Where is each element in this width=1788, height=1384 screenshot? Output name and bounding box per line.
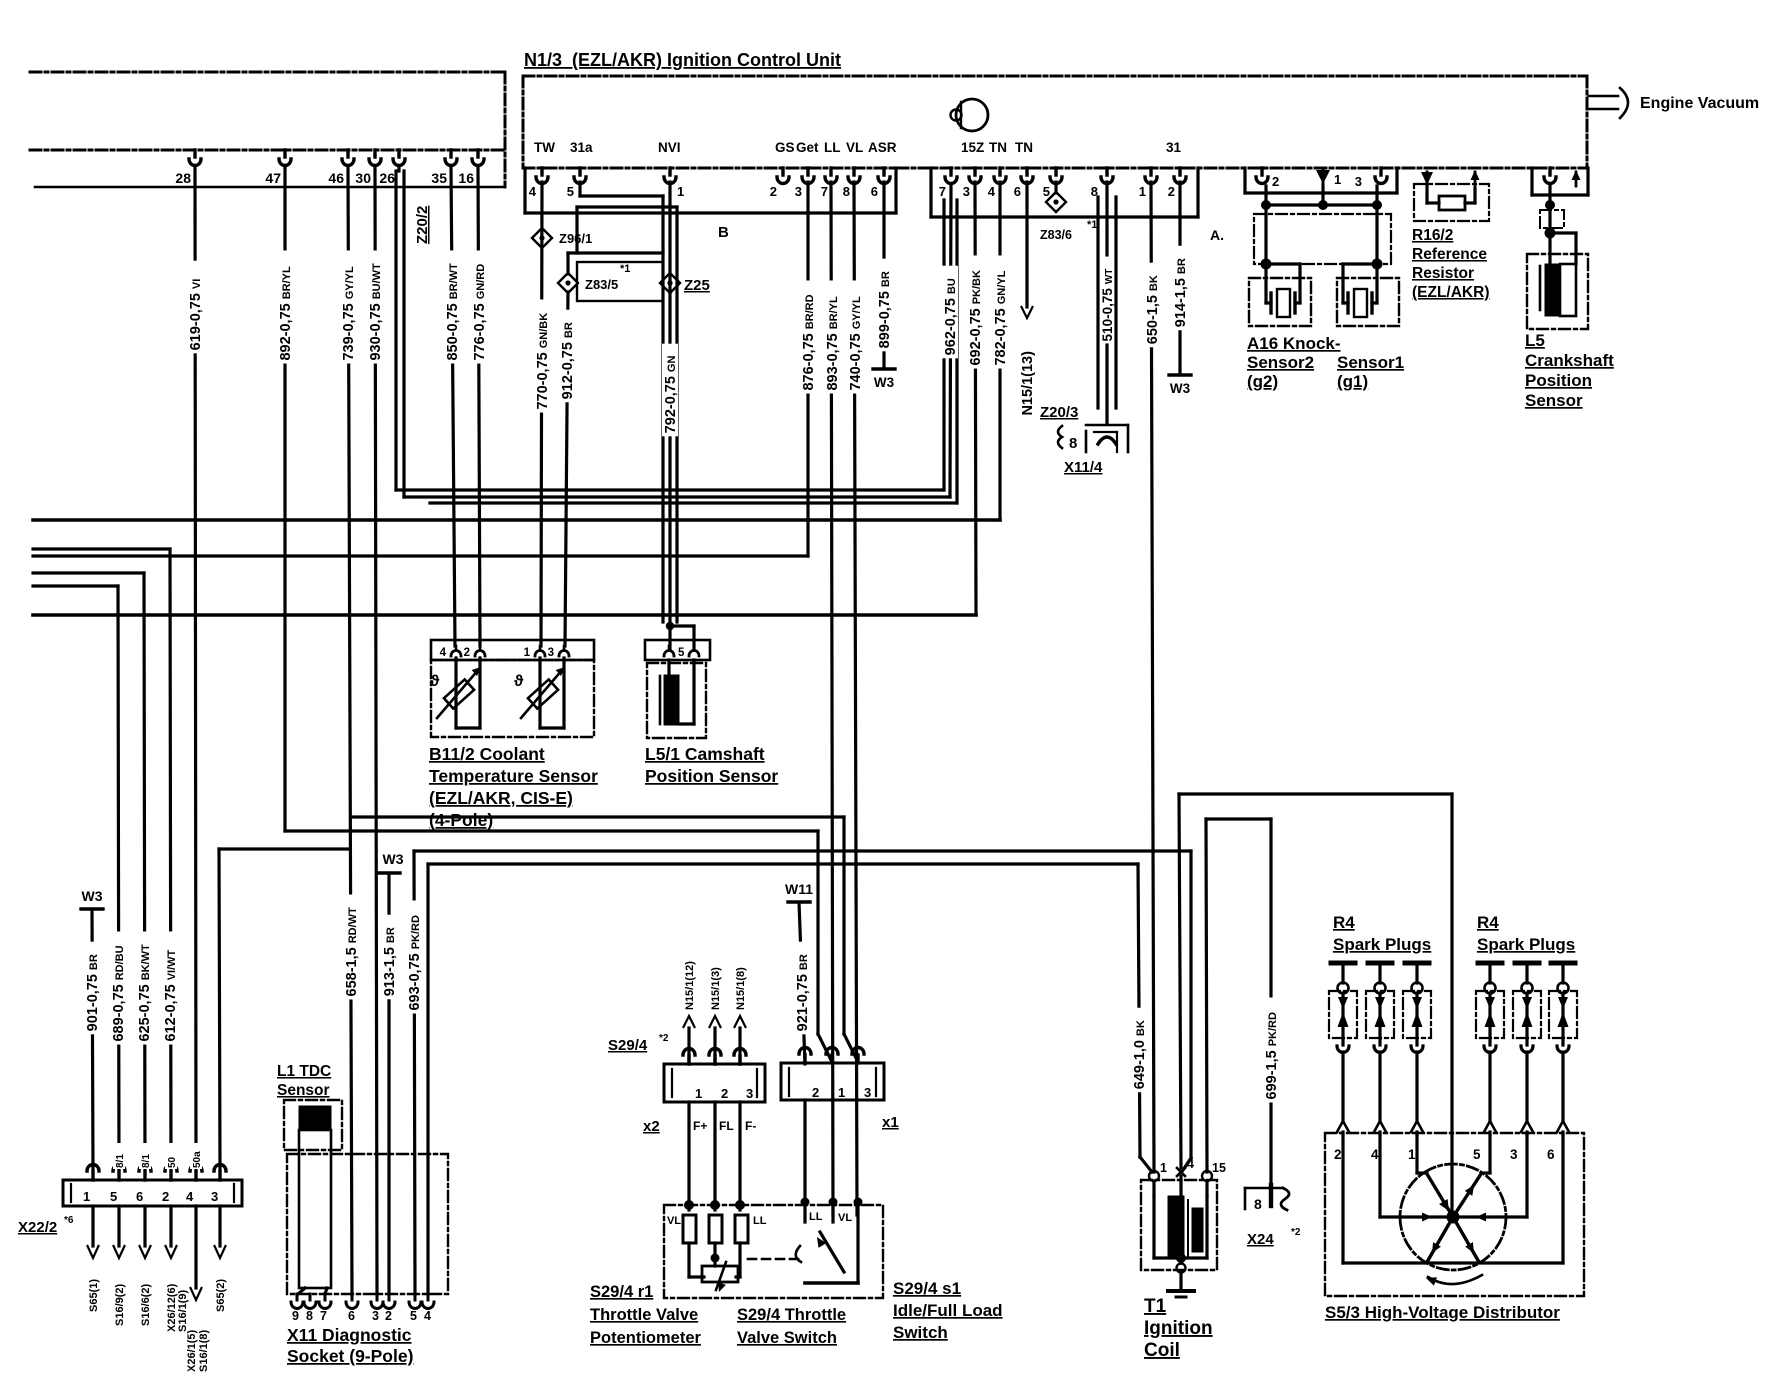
svg-text:7: 7 <box>939 184 946 199</box>
svg-text:TN: TN <box>1015 140 1033 155</box>
svg-text:Engine Vacuum: Engine Vacuum <box>1640 95 1759 112</box>
wire (X11 pin 4 to T1 terminal 1 / 649) <box>428 862 1138 865</box>
svg-text:7: 7 <box>320 1309 327 1323</box>
svg-text:3: 3 <box>372 1309 379 1323</box>
wire 913-1,5 BR (W3 to X11 pin 2) <box>387 873 390 1294</box>
connector X11 Diagnostic Socket (9-Pole) <box>287 1154 448 1294</box>
svg-text:A.: A. <box>1210 227 1224 243</box>
potentiometer S29/4 r1 <box>684 1200 694 1210</box>
svg-text:28: 28 <box>175 170 191 186</box>
svg-text:3: 3 <box>746 1086 753 1101</box>
svg-text:Potentiometer: Potentiometer <box>590 1329 702 1347</box>
svg-text:X11 Diagnostic: X11 Diagnostic <box>287 1325 412 1345</box>
svg-text:*1: *1 <box>620 263 630 275</box>
svg-text:650-1,5BK: 650-1,5BK <box>1145 275 1161 344</box>
svg-text:ASR: ASR <box>868 140 897 155</box>
svg-text:2: 2 <box>385 1309 392 1323</box>
svg-text:2: 2 <box>1272 174 1279 189</box>
box: control unit sub-connector A <box>929 168 932 217</box>
spark plug at x=1343 <box>1331 961 1355 966</box>
box: control unit sub-connector B <box>523 168 526 213</box>
svg-text:619-0,75VI: 619-0,75VI <box>188 279 204 351</box>
svg-text:S65(2): S65(2) <box>215 1279 227 1312</box>
svg-text:F+: F+ <box>693 1119 707 1133</box>
svg-text:6: 6 <box>1014 184 1021 199</box>
wire 876-0,75 BR/RD (Get pin 3 to left bus) <box>806 182 809 556</box>
svg-text:2: 2 <box>721 1086 728 1101</box>
svg-text:1: 1 <box>83 1189 90 1204</box>
node terminal 26 <box>393 150 405 166</box>
svg-text:Resistor: Resistor <box>1412 265 1474 282</box>
spark plug at x=1380 <box>1368 961 1392 966</box>
svg-text:5: 5 <box>110 1189 117 1204</box>
svg-text:Crankshaft: Crankshaft <box>1525 351 1614 370</box>
svg-text:(4-Pole): (4-Pole) <box>429 810 493 830</box>
svg-text:Z83/6: Z83/6 <box>1040 228 1072 242</box>
wire: bus to X22/2 pin 5 (689) <box>33 584 118 587</box>
svg-text:Coil: Coil <box>1144 1340 1180 1361</box>
svg-text:R4: R4 <box>1477 913 1499 932</box>
svg-text:X26/1(5): X26/1(5) <box>186 1329 198 1372</box>
svg-text:6: 6 <box>1547 1147 1555 1162</box>
wire 921-0,75 BR (W11 to x1 pin 2) <box>799 902 805 1064</box>
svg-text:50: 50 <box>167 1156 178 1168</box>
svg-text:*2: *2 <box>1291 1227 1301 1238</box>
wire N15/1(13) reference (pin 6) <box>1025 182 1028 307</box>
transducer A16 Knock-Sensor1 (g1) <box>1337 278 1399 326</box>
svg-text:FL: FL <box>719 1119 734 1133</box>
sensor L5/1 Camshaft Position Sensor <box>645 640 710 660</box>
svg-text:3: 3 <box>963 184 970 199</box>
svg-text:(g1): (g1) <box>1337 372 1368 391</box>
svg-text:50a: 50a <box>192 1151 203 1168</box>
svg-text:6: 6 <box>136 1189 143 1204</box>
svg-text:N15/1(3): N15/1(3) <box>710 967 722 1010</box>
wire: shield bus lines (Z20/2 to 962 shield) <box>396 488 944 491</box>
svg-text:Z20/3: Z20/3 <box>1040 404 1078 421</box>
node Z96/1 <box>532 228 552 248</box>
wire: knock sensor network <box>1264 186 1267 264</box>
svg-text:912-0,75BR: 912-0,75BR <box>560 322 576 399</box>
svg-text:1: 1 <box>838 1085 845 1100</box>
svg-text:Z20/2: Z20/2 <box>414 206 431 244</box>
svg-text:Sensor2: Sensor2 <box>1247 353 1314 372</box>
connector X22/2 <box>63 1180 242 1206</box>
svg-text:*2: *2 <box>659 1033 669 1044</box>
svg-text:L5/1 Camshaft: L5/1 Camshaft <box>645 744 765 764</box>
svg-text:W3: W3 <box>383 851 404 867</box>
svg-text:Idle/Full Load: Idle/Full Load <box>893 1301 1003 1320</box>
svg-text:7: 7 <box>821 184 828 199</box>
svg-text:4: 4 <box>1371 1147 1379 1162</box>
svg-text:4: 4 <box>186 1189 194 1204</box>
wire: top-left dash-dot harness outline <box>30 71 505 74</box>
svg-text:ϑ: ϑ <box>514 673 524 690</box>
wire 740-0,75 GY/YL (VL pin 8 through x1 to throttle switch) <box>854 182 857 1215</box>
svg-text:770-0,75GN/BK: 770-0,75GN/BK <box>535 313 551 410</box>
svg-text:Z83/5: Z83/5 <box>585 277 618 292</box>
rotation arrow <box>1428 1275 1482 1284</box>
wire 901-0,75 BR (W3 to X22/2 pin 1) <box>92 909 93 1170</box>
svg-text:N1/3 (EZL/AKR) Ignition Contr: N1/3 (EZL/AKR) Ignition Control Unit <box>524 50 841 70</box>
rotor arms <box>1427 1174 1453 1217</box>
svg-text:S5/3 High-Voltage Distributor: S5/3 High-Voltage Distributor <box>1325 1303 1560 1322</box>
svg-text:Reference: Reference <box>1412 246 1487 263</box>
svg-text:8: 8 <box>306 1309 313 1323</box>
wire 692-0,75 PK/BK (pin 3 to left bus) <box>975 182 976 615</box>
svg-text:1: 1 <box>1334 172 1341 187</box>
svg-text:30: 30 <box>355 170 371 186</box>
svg-text:3: 3 <box>864 1085 871 1100</box>
svg-text:892-0,75BR/YL: 892-0,75BR/YL <box>278 266 294 361</box>
svg-text:6: 6 <box>348 1309 355 1323</box>
svg-text:3: 3 <box>211 1189 218 1204</box>
svg-text:VL: VL <box>667 1215 681 1227</box>
wire 625-0,75 BK/WT <box>144 573 145 1170</box>
svg-text:2: 2 <box>162 1189 169 1204</box>
svg-text:B11/2 Coolant: B11/2 Coolant <box>429 744 545 764</box>
svg-text:740-0,75GY/YL: 740-0,75GY/YL <box>848 296 864 391</box>
svg-text:TN: TN <box>989 140 1007 155</box>
svg-text:LL: LL <box>809 1211 823 1223</box>
svg-text:4: 4 <box>988 184 996 199</box>
svg-text:N15/1(13): N15/1(13) <box>1020 351 1036 416</box>
svg-text:31: 31 <box>1166 140 1182 155</box>
svg-text:47: 47 <box>265 170 281 186</box>
rotor circle <box>1400 1164 1506 1270</box>
node terminal 47 <box>279 150 291 166</box>
svg-text:4: 4 <box>529 184 537 199</box>
svg-text:1: 1 <box>677 184 684 199</box>
svg-text:Sensor: Sensor <box>277 1082 330 1099</box>
svg-text:4: 4 <box>1187 1157 1194 1171</box>
svg-text:699-1,5PK/RD: 699-1,5PK/RD <box>1264 1012 1280 1099</box>
wire 693-0,75 PK/RD (X11 pin 5 to T1 area) <box>414 849 1191 852</box>
wire 893-0,75 BR/YL (LL pin 7 through x1 to throttle switch) <box>831 182 833 1215</box>
wire 739-0,75 GY/YL / 658-1,5 RD/WT (terminal 46 to X11 pin 6) <box>348 168 352 1294</box>
wire 510-0,75 WT shielded (pin 8 to connector X11/4) <box>1105 182 1108 424</box>
svg-text:L5: L5 <box>1525 331 1545 350</box>
svg-text:1: 1 <box>1160 1161 1167 1175</box>
svg-text:L1 TDC: L1 TDC <box>277 1063 331 1080</box>
wire 892-0,75 BR/YL (terminal 47 to x1 pin 1) <box>283 168 286 831</box>
svg-text:2: 2 <box>1334 1147 1342 1162</box>
node Z25 <box>660 273 680 293</box>
wire 619-0,75 VI (terminal 28 to X22/2 pin 4) <box>195 168 196 1170</box>
svg-text:W3: W3 <box>82 888 103 904</box>
wire N15/1 reference arrows above S29/4 <box>687 1028 690 1064</box>
wire T1 terminal 15 to X24 (699-1,5 PK/RD) <box>1206 819 1207 1172</box>
svg-text:Spark Plugs: Spark Plugs <box>1333 935 1431 954</box>
svg-text:2: 2 <box>770 184 777 199</box>
wire from X22/2 pin 3 up to junction <box>219 849 220 1170</box>
wire 770-0,75 GN/BK (TW pin 4 to B11/2 pin 1) <box>541 182 542 646</box>
svg-text:2: 2 <box>1168 184 1175 199</box>
wire 914-1,5 BR (pin 2 to ground W3) <box>1178 182 1181 374</box>
svg-text:1: 1 <box>1139 184 1146 199</box>
svg-text:26: 26 <box>379 170 395 186</box>
thermistor element (pins 4-2) <box>454 658 457 728</box>
svg-text:899-0,75BR: 899-0,75BR <box>877 271 893 348</box>
box S29/4 throttle potentiometer / switch <box>664 1205 883 1298</box>
svg-text:2: 2 <box>812 1085 819 1100</box>
svg-text:N15/1(12): N15/1(12) <box>684 961 696 1010</box>
svg-text:B: B <box>718 224 729 241</box>
wire 782-0,75 GN/YL (pin 4 to left bus) <box>998 182 1001 520</box>
wire: bus to X22/2 pin 6 (625) <box>33 571 144 574</box>
svg-text:901-0,75BR: 901-0,75BR <box>85 954 101 1031</box>
svg-text:5: 5 <box>678 647 685 659</box>
svg-text:F-: F- <box>745 1119 756 1133</box>
node terminal 35 <box>445 150 457 166</box>
svg-text:8: 8 <box>1069 435 1077 452</box>
svg-text:Throttle Valve: Throttle Valve <box>590 1306 698 1324</box>
svg-text:S16/1(8): S16/1(8) <box>198 1329 210 1372</box>
svg-text:4: 4 <box>424 1309 431 1323</box>
svg-text:Sensor: Sensor <box>1525 391 1583 410</box>
svg-text:S65(1): S65(1) <box>88 1279 100 1312</box>
ground W3 (914) <box>1169 373 1191 376</box>
svg-text:S29/4 Throttle: S29/4 Throttle <box>737 1306 846 1324</box>
svg-text:GS: GS <box>775 140 795 155</box>
svg-text:5: 5 <box>410 1309 417 1323</box>
spark plug at x=1563 <box>1551 961 1575 966</box>
svg-text:*1: *1 <box>1087 219 1097 231</box>
node terminal 30 <box>369 150 381 166</box>
svg-text:x1: x1 <box>882 1114 899 1131</box>
wires below X22/2 to reference points <box>91 1206 94 1246</box>
svg-text:3: 3 <box>795 184 802 199</box>
svg-text:1: 1 <box>524 647 531 659</box>
svg-text:921-0,75BR: 921-0,75BR <box>795 954 811 1031</box>
svg-text:15Z: 15Z <box>961 140 984 155</box>
wire 612-0,75 VI/WT <box>170 549 171 1170</box>
node Z83/6 <box>1054 182 1057 193</box>
svg-text:Valve Switch: Valve Switch <box>737 1329 837 1347</box>
svg-text:893-0,75BR/YL: 893-0,75BR/YL <box>825 296 841 391</box>
svg-text:5: 5 <box>1473 1147 1481 1162</box>
node terminal 28 <box>189 150 201 166</box>
svg-text:Temperature Sensor: Temperature Sensor <box>429 766 598 786</box>
svg-text:TW: TW <box>534 140 555 155</box>
svg-text:NVI: NVI <box>658 140 681 155</box>
svg-text:(g2): (g2) <box>1247 372 1278 391</box>
wire 649-1,0 BK <box>1138 864 1140 1157</box>
svg-text:31a: 31a <box>570 140 593 155</box>
wire from 31a pin 5 to Z83/5 / Z25 network <box>578 182 581 196</box>
svg-text:6: 6 <box>871 184 878 199</box>
svg-text:876-0,75BR/RD: 876-0,75BR/RD <box>801 294 817 390</box>
svg-text:913-1,5BR: 913-1,5BR <box>382 927 398 996</box>
connector x1 <box>781 1063 884 1100</box>
svg-text:962-0,75BU: 962-0,75BU <box>943 278 959 355</box>
svg-text:W3: W3 <box>1170 381 1191 396</box>
wire T1 terminal 4 high voltage to distributor <box>1179 794 1181 1168</box>
svg-text:649-1,0BK: 649-1,0BK <box>1132 1020 1148 1089</box>
svg-text:9: 9 <box>292 1309 299 1323</box>
svg-text:692-0,75PK/BK: 692-0,75PK/BK <box>968 270 984 366</box>
svg-text:15: 15 <box>1212 1161 1226 1175</box>
sensor L5 Crankshaft Position Sensor <box>1530 168 1533 195</box>
svg-text:776-0,75GN/RD: 776-0,75GN/RD <box>472 264 488 361</box>
svg-text:Position Sensor: Position Sensor <box>645 766 778 786</box>
wire slant into x1 pin 3 <box>842 817 845 1034</box>
connector X24 <box>1245 1187 1283 1190</box>
svg-text:W3: W3 <box>874 375 895 390</box>
svg-text:2: 2 <box>464 647 470 659</box>
wire 912-0,75 BR (Z83/5 to B11/2 pin 3) <box>565 292 568 646</box>
node terminal 46 <box>342 150 354 166</box>
svg-text:792-0,75GN: 792-0,75GN <box>663 355 679 433</box>
svg-text:8/1: 8/1 <box>115 1154 126 1168</box>
coil T1 Ignition Coil <box>1141 1180 1217 1270</box>
svg-text:(EZL/AKR, CIS-E): (EZL/AKR, CIS-E) <box>429 788 573 808</box>
svg-text:LL: LL <box>753 1215 767 1227</box>
svg-text:739-0,75GY/YL: 739-0,75GY/YL <box>341 266 357 361</box>
distributor S5/3 High-Voltage Distributor <box>1325 1133 1584 1296</box>
svg-text:N15/1(8): N15/1(8) <box>735 967 747 1010</box>
spark plug at x=1490 <box>1478 961 1502 966</box>
svg-text:1: 1 <box>1408 1147 1416 1162</box>
svg-text:5: 5 <box>1043 184 1050 199</box>
svg-text:612-0,75VI/WT: 612-0,75VI/WT <box>163 949 179 1041</box>
engine vacuum port <box>1589 95 1618 98</box>
svg-text:S29/4 r1: S29/4 r1 <box>590 1283 653 1301</box>
svg-text:S29/4: S29/4 <box>608 1037 648 1054</box>
svg-text:X22/2: X22/2 <box>18 1219 57 1236</box>
wire 776-0,75 GN/RD (terminal 16 to B11/2 pin 2) <box>478 168 480 646</box>
svg-text:VL: VL <box>846 140 863 155</box>
wire: bus to 692 <box>33 613 976 617</box>
svg-text:8/1: 8/1 <box>141 1154 152 1168</box>
svg-text:782-0,75GN/YL: 782-0,75GN/YL <box>993 270 1009 365</box>
svg-text:693-0,75PK/RD: 693-0,75PK/RD <box>407 915 423 1011</box>
svg-text:689-0,75RD/BU: 689-0,75RD/BU <box>111 945 127 1041</box>
wire: bus to X22/2 pin 2 (612) <box>33 547 170 550</box>
connector of A16 knock sensors <box>1243 168 1246 193</box>
pins of sub-connector B <box>536 168 548 184</box>
mechanical link potentiometer-switch <box>748 1258 802 1261</box>
svg-text:R16/2: R16/2 <box>1412 227 1453 244</box>
svg-text:ϑ: ϑ <box>430 673 440 690</box>
svg-text:W11: W11 <box>785 881 813 897</box>
svg-text:658-1,5RD/WT: 658-1,5RD/WT <box>344 907 360 997</box>
svg-text:LL: LL <box>824 140 841 155</box>
resistor R16/2 Reference Resistor (EZL/AKR) <box>1421 172 1433 185</box>
wire 689-0,75 RD/BU <box>118 586 119 1170</box>
svg-text:1: 1 <box>695 1086 702 1101</box>
wire 792-0,75 GN shielded (NVI pin 1 to L5/1) <box>668 182 671 626</box>
wire 962-0,75 BU shielded (15Z pin 7 to shield bus) <box>950 186 951 497</box>
svg-text:5: 5 <box>567 184 574 199</box>
svg-text:850-0,75BR/WT: 850-0,75BR/WT <box>445 263 461 361</box>
svg-text:8: 8 <box>1254 1196 1262 1212</box>
svg-text:Sensor1: Sensor1 <box>1337 353 1404 372</box>
svg-text:S16/6(2): S16/6(2) <box>140 1283 152 1326</box>
pins of sub-connector A <box>945 168 957 184</box>
switch S29/4 s1 contacts <box>803 1100 806 1222</box>
node Z83/5 <box>558 273 578 293</box>
wire 930-0,75 BU/WT (terminal 30 to X11 pin 3) <box>375 168 377 1294</box>
transducer A16 Knock-Sensor2 (g2) <box>1249 278 1311 326</box>
ground W3 (ASR) <box>873 367 895 370</box>
svg-text:35: 35 <box>431 170 447 186</box>
svg-text:x2: x2 <box>643 1118 660 1135</box>
wire: bus to 876 <box>33 554 808 557</box>
svg-text:S16/9(2): S16/9(2) <box>114 1283 126 1326</box>
svg-text:Get: Get <box>796 140 819 155</box>
sensor B11/2 Coolant Temperature Sensor <box>431 640 594 660</box>
wire 650-1,5 BK (31 pin 1 to T1 terminal 1) <box>1151 182 1154 1172</box>
svg-text:Socket (9-Pole): Socket (9-Pole) <box>287 1346 413 1366</box>
svg-text:X11/4: X11/4 <box>1064 459 1103 476</box>
thermistor element (pins 1-3) <box>538 658 541 728</box>
svg-text:(EZL/AKR): (EZL/AKR) <box>1412 284 1490 301</box>
spark plug at x=1527 <box>1515 961 1539 966</box>
node terminal 16 <box>472 150 484 166</box>
wire 850-0,75 BR/WT (terminal 35 to B11/2 pin 4) <box>451 168 455 646</box>
svg-text:S29/4 s1: S29/4 s1 <box>893 1279 961 1298</box>
svg-text:3: 3 <box>1510 1147 1518 1162</box>
svg-text:X24: X24 <box>1247 1231 1274 1248</box>
svg-text:R4: R4 <box>1333 913 1355 932</box>
svg-text:VL: VL <box>838 1212 852 1224</box>
svg-text:Switch: Switch <box>893 1323 948 1342</box>
wire: solid line under terminal row 28..16 <box>35 186 505 189</box>
vacuum capsule symbol <box>956 99 988 131</box>
wires S29/4 pins into potentiometer <box>687 1102 690 1210</box>
svg-text:8: 8 <box>843 184 850 199</box>
svg-text:Position: Position <box>1525 371 1592 390</box>
spark plug at x=1417 <box>1405 961 1429 966</box>
svg-text:16: 16 <box>458 170 474 186</box>
svg-text:914-1,5BR: 914-1,5BR <box>1173 258 1189 327</box>
svg-text:46: 46 <box>328 170 344 186</box>
svg-text:*6: *6 <box>64 1215 74 1226</box>
wire Z20/2 shielded pair (terminal 26) <box>397 168 400 171</box>
wire 899-0,75 BR (ASR pin 6 to ground W3) <box>882 182 885 368</box>
svg-text:S16/1(9): S16/1(9) <box>177 1289 189 1332</box>
svg-text:A16 Knock-: A16 Knock- <box>1247 334 1341 353</box>
svg-text:Ignition: Ignition <box>1144 1318 1213 1339</box>
svg-text:T1: T1 <box>1144 1296 1167 1317</box>
svg-text:3: 3 <box>548 647 554 659</box>
wire: bus to 782 <box>33 518 1000 522</box>
svg-text:Z25: Z25 <box>684 277 710 294</box>
wires distributor terminals to rotor <box>1341 1135 1344 1263</box>
svg-text:Spark Plugs: Spark Plugs <box>1477 935 1575 954</box>
svg-text:4: 4 <box>440 647 447 659</box>
svg-text:3: 3 <box>1355 174 1362 189</box>
svg-text:625-0,75BK/WT: 625-0,75BK/WT <box>137 944 153 1042</box>
svg-text:930-0,75BU/WT: 930-0,75BU/WT <box>368 263 384 361</box>
